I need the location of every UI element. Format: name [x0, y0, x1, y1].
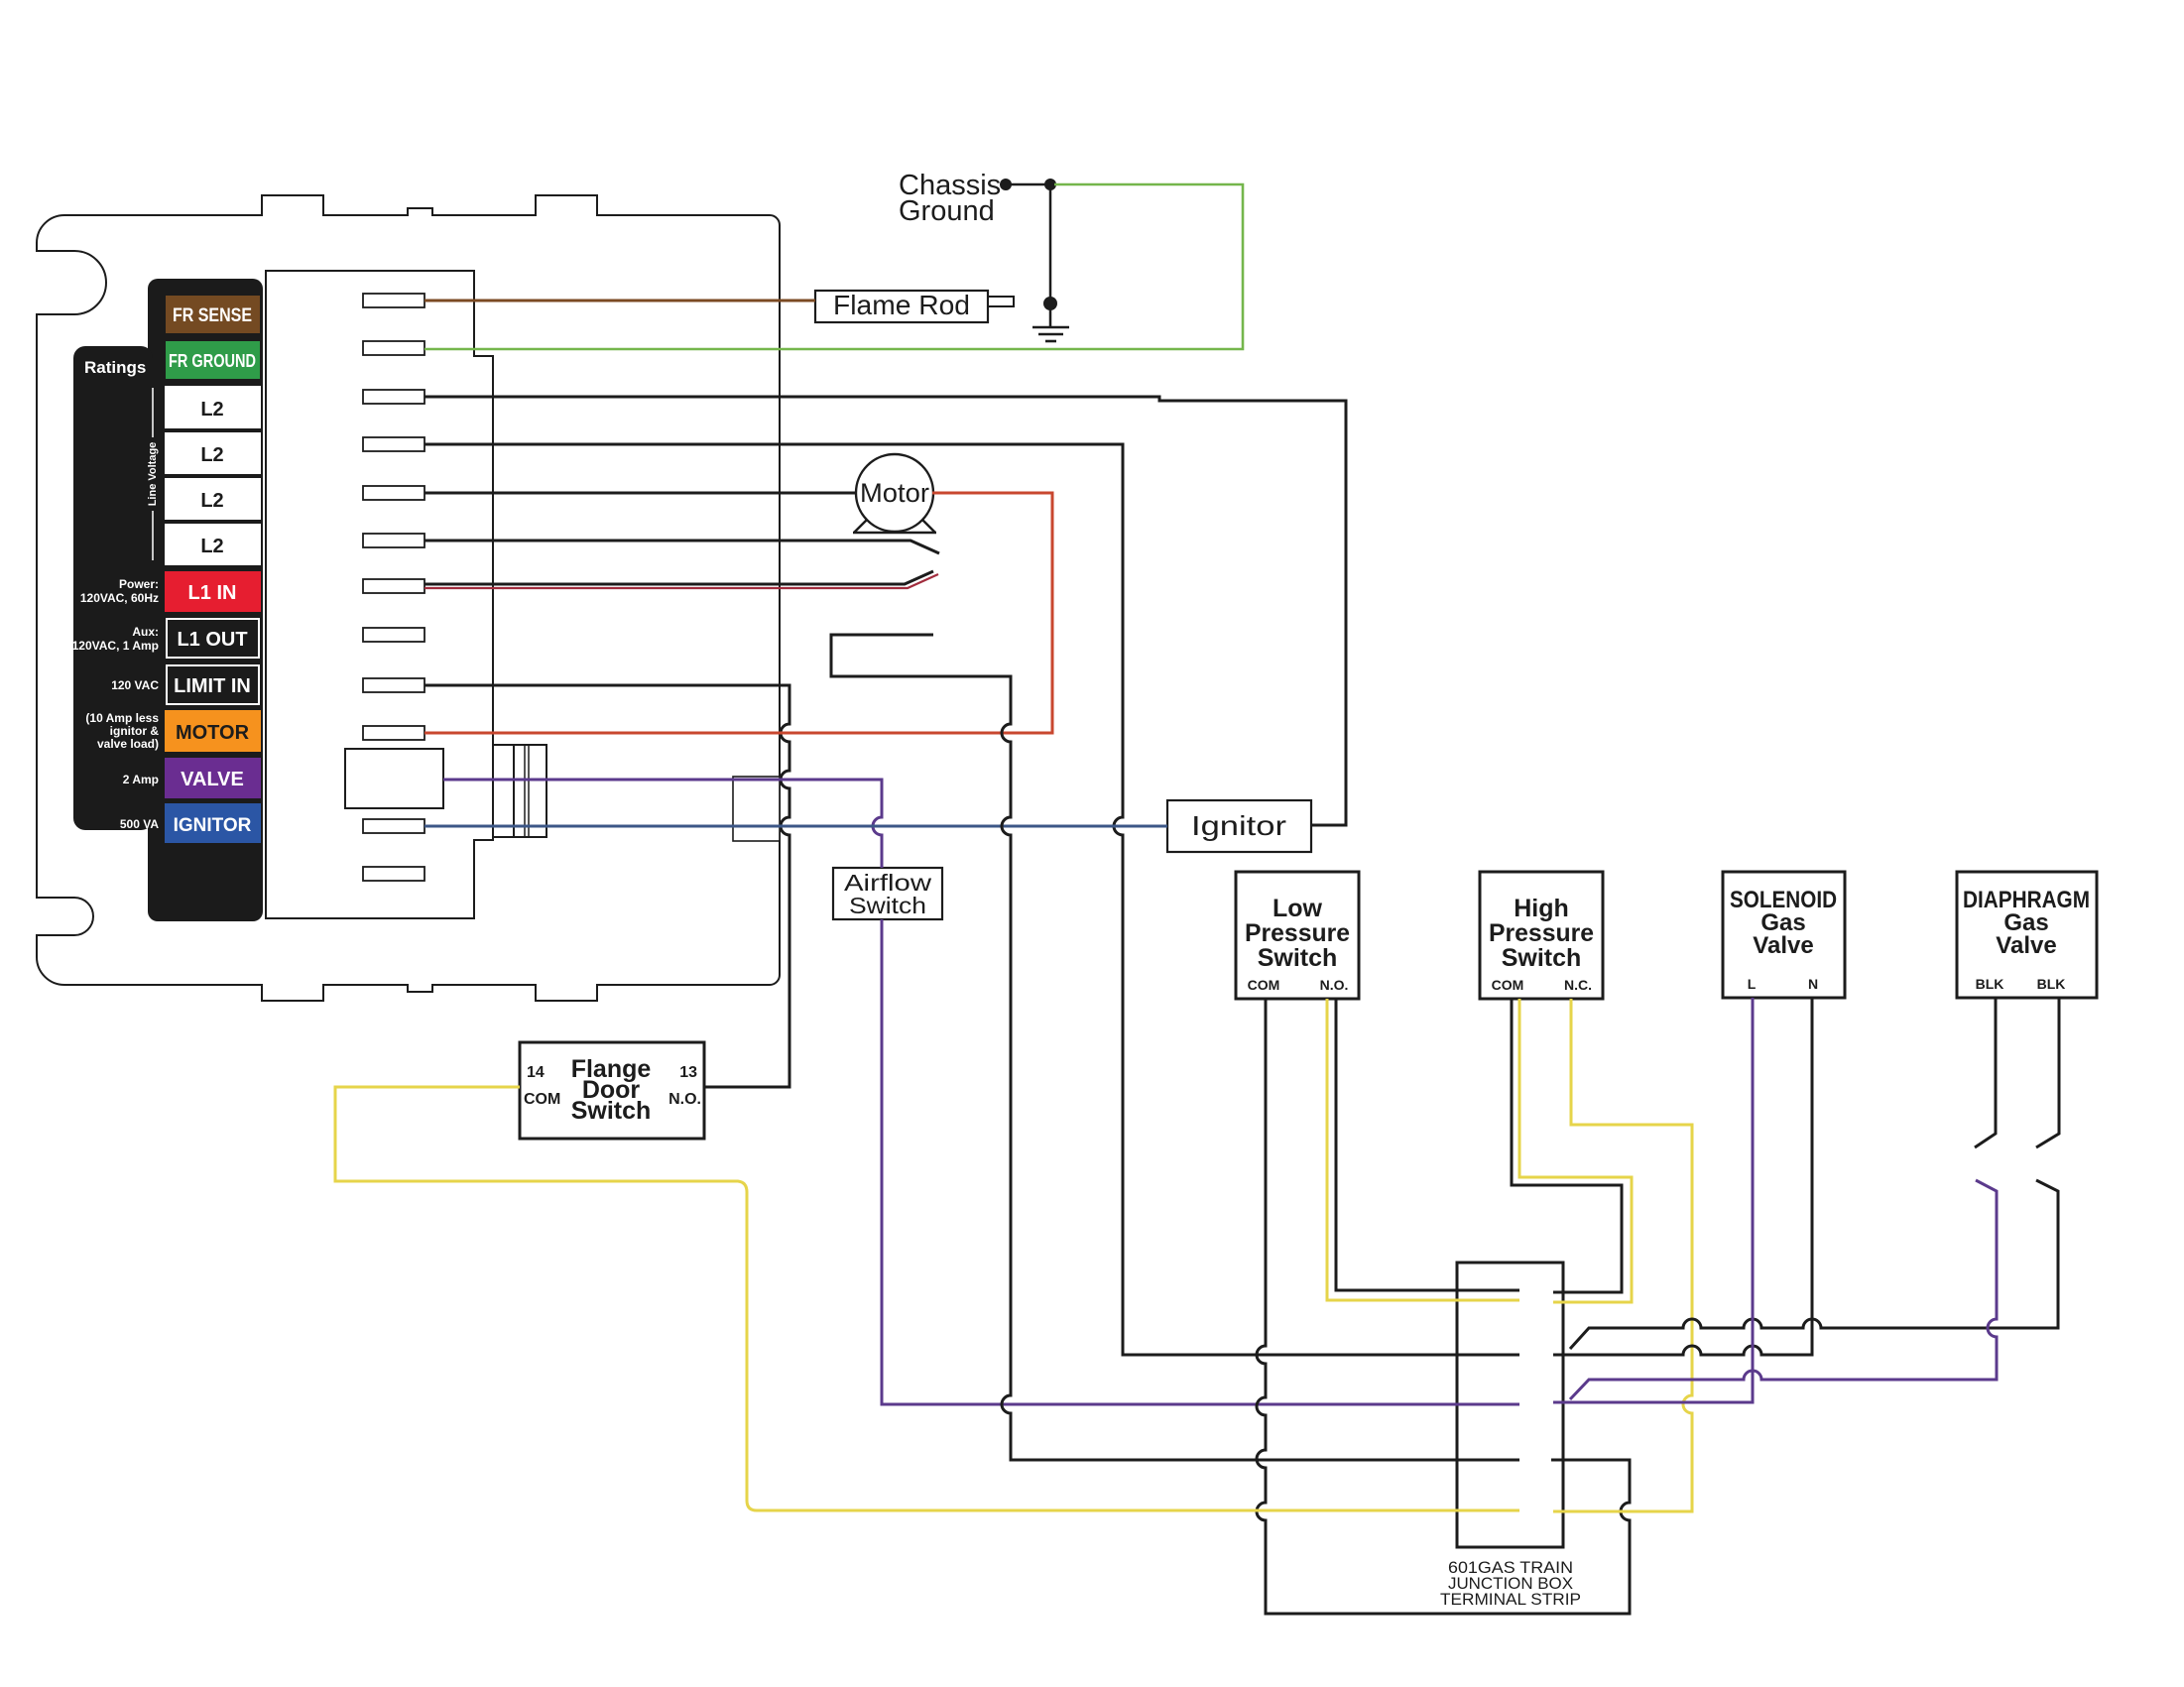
svg-text:L2: L2 — [200, 444, 223, 466]
label L2 (2) — [165, 432, 261, 474]
wire ground drop — [1049, 184, 1052, 326]
wire BLU ignitor — [425, 825, 1167, 828]
wire WHT2 to junction WHITE — [425, 444, 1519, 1355]
svg-text:MOTOR: MOTOR — [176, 722, 250, 744]
svg-text:Ratings: Ratings — [84, 358, 146, 377]
wire low pressure N.O. yellow conductor — [1327, 999, 1519, 1300]
svg-text:valve load): valve load) — [97, 737, 159, 751]
motor M1 — [856, 454, 933, 532]
svg-text:Switch: Switch — [1502, 944, 1582, 972]
label L2 (1) — [165, 386, 261, 428]
wire YEL flange door to junction YEL — [335, 1087, 1519, 1510]
wire BRN flame rod sense — [425, 300, 815, 302]
svg-text:2 Amp: 2 Amp — [123, 773, 159, 786]
wire WHT1 ignitor return — [425, 397, 1346, 825]
svg-text:Motor: Motor — [860, 478, 929, 508]
wire solenoid L to junction VIO — [1553, 998, 1753, 1402]
solenoid gas valve — [1723, 872, 1845, 998]
svg-text:Switch: Switch — [849, 893, 926, 918]
wire RED/WHT L1 red stripe — [425, 574, 938, 588]
wire VIO valve to airflow switch — [443, 780, 882, 868]
svg-text:L2: L2 — [200, 490, 223, 512]
pin 10 MOTOR — [363, 726, 425, 740]
svg-text:COM: COM — [1492, 977, 1524, 993]
pin 5 L2 — [363, 486, 425, 500]
svg-text:Ground: Ground — [899, 195, 995, 227]
svg-text:Line Voltage: Line Voltage — [147, 442, 159, 507]
svg-text:Pressure: Pressure — [1489, 919, 1594, 947]
svg-text:Switch: Switch — [1258, 944, 1338, 972]
svg-text:14: 14 — [527, 1064, 545, 1081]
wire RED/WHT L1 black conductor — [425, 571, 933, 584]
svg-text:Valve: Valve — [1753, 932, 1813, 959]
svg-text:High: High — [1514, 895, 1569, 922]
svg-text:L2: L2 — [200, 399, 223, 421]
svg-text:13: 13 — [679, 1064, 697, 1081]
wire WHT4 L2 with open switch blade — [425, 541, 939, 553]
ignitor — [1167, 800, 1311, 852]
svg-text:L: L — [1748, 976, 1757, 992]
wire high pressure COM yellow conductor — [1519, 999, 1632, 1302]
svg-text:Aux:: Aux: — [132, 625, 159, 639]
valve relay block on board — [345, 749, 443, 808]
wire chassis ground link — [1006, 183, 1050, 186]
svg-text:BLK: BLK — [1976, 976, 2004, 992]
pin 11 IGNITOR — [363, 819, 425, 833]
flange door switch — [520, 1042, 704, 1139]
svg-text:Flame Rod: Flame Rod — [833, 290, 970, 320]
svg-text:500 VA: 500 VA — [120, 817, 159, 831]
label L1 IN — [165, 571, 261, 612]
svg-text:Low: Low — [1273, 895, 1323, 922]
connector housing on board — [266, 271, 493, 918]
wire VIO airflow to junction VIO — [882, 919, 1519, 1404]
svg-text:VALVE: VALVE — [181, 769, 244, 790]
svg-text:N.C.: N.C. — [1564, 977, 1592, 993]
flame rod — [815, 291, 988, 322]
label L2 (3) — [165, 478, 261, 520]
svg-text:N.O.: N.O. — [1320, 977, 1349, 993]
label VALVE — [165, 758, 261, 798]
svg-text:N: N — [1808, 976, 1818, 992]
label L2 (4) — [165, 524, 261, 565]
svg-text:120VAC, 60Hz: 120VAC, 60Hz — [80, 591, 159, 605]
wire high pressure COM black conductor — [1512, 999, 1622, 1292]
svg-text:FR GROUND: FR GROUND — [169, 351, 256, 371]
wire ORG motor loop — [425, 493, 1052, 733]
wire diaphragm BLK right lead — [2036, 998, 2059, 1147]
wire LIMITS to junction BLK — [831, 635, 1519, 1460]
wire low pressure N.O. black conductor — [1336, 999, 1519, 1290]
svg-text:TERMINAL STRIP: TERMINAL STRIP — [1440, 1590, 1581, 1609]
terminal label panel (black) — [148, 279, 263, 921]
label L1 OUT — [167, 619, 259, 658]
SECTION: wires — [335, 184, 2059, 1614]
wire junction WHITE to diaphragm WHT — [1570, 1180, 2058, 1349]
wire high pressure N.C. YEL to junction YEL — [1553, 999, 1692, 1511]
wire junction WHITE to solenoid N — [1553, 998, 1812, 1355]
pin 1 FR SENSE — [363, 294, 425, 307]
low pressure switch — [1236, 872, 1359, 999]
svg-text:120VAC, 1 Amp: 120VAC, 1 Amp — [72, 639, 159, 653]
svg-text:L1 IN: L1 IN — [188, 582, 237, 604]
svg-text:ignitor &: ignitor & — [110, 724, 160, 738]
ignition control board outline — [37, 195, 780, 1001]
svg-text:COM: COM — [1248, 977, 1280, 993]
ground symbol — [1032, 326, 1069, 329]
svg-text:IGNITOR: IGNITOR — [174, 815, 252, 836]
svg-text:120 VAC: 120 VAC — [111, 678, 159, 692]
pin 8 L1 OUT — [363, 628, 425, 642]
svg-text:Ignitor: Ignitor — [1191, 810, 1286, 841]
airflow switch — [833, 868, 942, 919]
svg-text:(10 Amp less: (10 Amp less — [85, 711, 159, 725]
ratings panel (black) — [73, 346, 153, 830]
fuse holder on connector — [493, 744, 514, 746]
svg-text:Switch: Switch — [571, 1097, 652, 1125]
wire connector block at board edge — [733, 777, 780, 841]
svg-text:LIMIT IN: LIMIT IN — [174, 675, 251, 697]
svg-text:COM: COM — [524, 1091, 560, 1108]
wire junction VIO to diaphragm VIO — [1570, 1180, 1997, 1399]
label IGNITOR — [165, 803, 261, 843]
wire BLK limit in to flange door switch — [425, 685, 789, 1087]
svg-text:FR SENSE: FR SENSE — [173, 305, 252, 326]
pin 7 L1 IN — [363, 579, 425, 593]
line voltage bracket — [152, 388, 154, 437]
svg-text:Valve: Valve — [1996, 932, 2056, 959]
wire low pressure COM loop to junction BLK — [1257, 999, 1630, 1614]
pin 6 L2 — [363, 534, 425, 547]
junction box terminal strip — [1457, 1263, 1563, 1547]
wire GRN flame rod ground — [425, 184, 1243, 349]
label LIMIT IN — [167, 665, 259, 704]
svg-text:L2: L2 — [200, 536, 223, 557]
pin 9 LIMIT IN — [363, 678, 425, 692]
diaphragm gas valve — [1957, 872, 2097, 998]
svg-text:Pressure: Pressure — [1245, 919, 1350, 947]
svg-text:Power:: Power: — [119, 577, 159, 591]
label FR GROUND — [165, 340, 261, 380]
pin 4 L2 — [363, 437, 425, 451]
wire WHT3 to motor — [425, 492, 857, 495]
wire diaphragm BLK left lead — [1975, 998, 1996, 1147]
label MOTOR — [165, 710, 261, 752]
svg-text:L1 OUT: L1 OUT — [177, 629, 247, 651]
svg-text:N.O.: N.O. — [668, 1091, 701, 1108]
pin 3 L2 — [363, 390, 425, 404]
label FR SENSE — [165, 295, 261, 334]
high pressure switch — [1480, 872, 1603, 999]
pin 12 spare — [363, 867, 425, 881]
pin 2 FR GROUND — [363, 341, 425, 355]
svg-text:BLK: BLK — [2037, 976, 2066, 992]
